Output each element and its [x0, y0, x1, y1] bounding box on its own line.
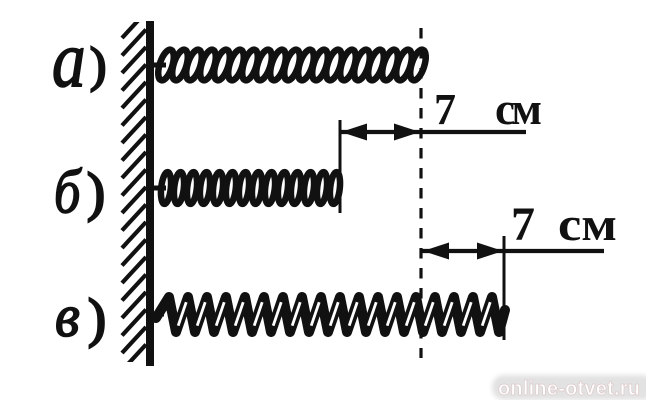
svg-text:см: см	[495, 84, 542, 134]
text 7 cm 1	[434, 84, 542, 134]
wall hatching	[122, 12, 146, 371]
svg-text:): )	[88, 288, 106, 348]
spring v zigzag	[156, 297, 505, 332]
dim line 1	[340, 130, 526, 134]
dim tick 1	[339, 120, 342, 213]
svg-text:7: 7	[434, 85, 456, 134]
svg-text:б: б	[54, 159, 82, 227]
spring v stub	[150, 312, 164, 317]
svg-text:в: в	[55, 283, 80, 350]
wall line	[146, 21, 154, 366]
arrowhead 2 right	[477, 243, 503, 260]
dashed line	[419, 28, 422, 358]
spring b	[160, 172, 342, 205]
svg-text:): )	[90, 37, 106, 92]
dim tick 2	[503, 236, 506, 340]
text 7 cm 2	[511, 198, 617, 251]
spring b stub	[150, 186, 166, 191]
label v)	[55, 283, 106, 350]
label b)	[54, 159, 105, 227]
arrowhead 1 left	[341, 124, 367, 141]
svg-text:): )	[87, 162, 105, 222]
label a)	[52, 15, 106, 104]
svg-text:7: 7	[511, 198, 535, 251]
watermark band	[492, 375, 646, 400]
arrowhead 2 left	[423, 243, 449, 260]
spring a stub	[150, 63, 166, 68]
svg-text:см: см	[558, 198, 617, 251]
arrowhead 1 right	[394, 124, 420, 141]
spring a	[155, 48, 429, 82]
dim line 2	[422, 249, 604, 253]
svg-text:online-otvet.ru: online-otvet.ru	[498, 378, 640, 400]
spring v slits	[178, 302, 490, 326]
svg-text:a: a	[52, 15, 86, 104]
